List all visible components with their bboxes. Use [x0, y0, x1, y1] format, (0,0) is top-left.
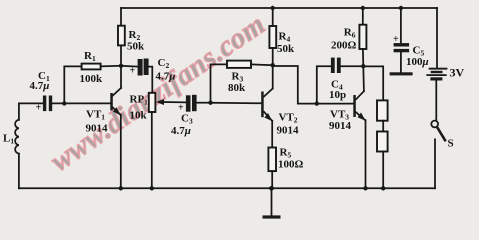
- svg-text:10p: 10p: [329, 89, 346, 101]
- svg-text:+: +: [36, 103, 42, 114]
- right side wire from rail to battery: [436, 8, 438, 68]
- svg-text:10k: 10k: [130, 110, 148, 122]
- svg-text:L1: L1: [3, 133, 14, 146]
- svg-text:R4: R4: [279, 31, 291, 44]
- wire R1 right to node A: [101, 65, 121, 68]
- svg-text:4.7μ: 4.7μ: [30, 80, 50, 92]
- junction dot C4 node: [361, 64, 365, 68]
- svg-text:R1: R1: [84, 50, 96, 63]
- wire R4 down to collector node: [272, 48, 274, 89]
- wire C5 to chassis bar: [400, 52, 402, 72]
- wire R6 down to VT3 collector: [363, 49, 364, 91]
- resistor R3: [227, 61, 251, 68]
- ground rail wire: [19, 187, 435, 189]
- junction dot VT3 emitter at rail: [363, 186, 367, 190]
- junction dot earphone at rail: [381, 186, 385, 190]
- wire junction up to C4 left: [317, 66, 331, 103]
- wire VT1 emitter down to ground rail: [120, 115, 122, 189]
- capacitor C2: [130, 57, 176, 83]
- wire base node up to R1: [64, 66, 81, 103]
- wire node A to C2: [121, 65, 138, 68]
- transistor VT3: [329, 91, 366, 132]
- wire C2 right down to RP1: [149, 67, 153, 93]
- chassis bar under C5: [390, 72, 413, 75]
- wire C4 right to R6 column: [341, 65, 364, 67]
- junction dot collector node VT2: [271, 63, 275, 67]
- wire battery to switch: [435, 81, 437, 121]
- svg-text:100Ω: 100Ω: [278, 159, 304, 171]
- earphone coil lower: [377, 132, 388, 152]
- wire rail down to R6: [362, 8, 364, 25]
- svg-text:+: +: [393, 34, 399, 45]
- wire R5 bottom to rail: [271, 171, 273, 188]
- svg-text:S: S: [448, 138, 454, 150]
- wire RP1 wiper to C3: [163, 101, 186, 103]
- svg-text:100μ: 100μ: [406, 56, 429, 68]
- junction dot VT1 emitter at rail: [119, 186, 123, 190]
- svg-text:80k: 80k: [228, 82, 246, 94]
- svg-text:50k: 50k: [127, 41, 145, 53]
- wire R3 right to VT2 collector node: [251, 63, 273, 66]
- earphone coil upper: [377, 100, 388, 120]
- junction dot on rail C5: [399, 6, 403, 10]
- svg-text:C3: C3: [181, 113, 193, 126]
- svg-text:100k: 100k: [80, 73, 104, 85]
- svg-text:3V: 3V: [450, 66, 465, 80]
- svg-text:9014: 9014: [329, 120, 352, 132]
- capacitor C3: [171, 95, 197, 137]
- wire VT2 emitter to R5: [271, 121, 273, 148]
- wire rail corner down to R2: [120, 8, 122, 26]
- wire C3 to junction: [197, 102, 211, 104]
- junction dot VT3 base node: [315, 101, 319, 105]
- svg-text:VT1: VT1: [86, 109, 105, 122]
- wire R2 bottom to node A: [120, 45, 122, 65]
- top supply rail wire: [121, 7, 437, 9]
- svg-text:9014: 9014: [277, 125, 300, 137]
- junction dot base node: [62, 101, 66, 105]
- wire VT2 collector node right branch: [273, 66, 317, 104]
- node A junction dot: [119, 64, 123, 68]
- wire switch to ground rail: [434, 139, 436, 188]
- svg-text:VT2: VT2: [279, 112, 298, 125]
- wire C1 to VT1 base: [52, 102, 110, 104]
- wire rail down to R4: [272, 8, 274, 26]
- watermark: [45, 8, 271, 177]
- wire junction up to R3: [211, 64, 228, 102]
- svg-text:R6: R6: [344, 27, 356, 40]
- svg-text:4.7μ: 4.7μ: [156, 71, 176, 83]
- resistor R1: [82, 64, 101, 70]
- wire between earphone coils: [382, 121, 384, 132]
- switch S: [431, 121, 453, 150]
- wire junction to VT3 base: [317, 103, 354, 105]
- transistor VT2: [261, 89, 299, 137]
- resistor R5: [268, 148, 276, 172]
- potentiometer RP1: [130, 93, 165, 122]
- ground: [263, 188, 281, 218]
- resistor R6: [359, 25, 366, 49]
- wire RP1 bottom to ground rail: [151, 112, 153, 188]
- svg-text:4.7μ: 4.7μ: [171, 125, 191, 137]
- battery 3V: [426, 66, 464, 81]
- wire node A down to VT1 collector: [120, 66, 122, 88]
- transistor VT1: [86, 88, 122, 135]
- wire VT3 emitter to rail: [365, 120, 367, 188]
- svg-text:+: +: [130, 66, 136, 77]
- svg-text:C2: C2: [158, 57, 170, 70]
- junction dot RP1 at rail: [150, 186, 154, 190]
- capacitor C4: [329, 58, 346, 101]
- resistor R2: [118, 26, 125, 46]
- capacitor C1: [30, 70, 53, 114]
- svg-text:50k: 50k: [277, 43, 295, 55]
- junction dot on rail R4: [271, 6, 275, 10]
- wire L1 top to C1: [19, 102, 43, 104]
- junction dot R5 at rail: [269, 186, 274, 191]
- junction dot on rail R6: [361, 6, 365, 10]
- wire junction to VT2 base: [211, 102, 262, 105]
- wire earphone to rail: [382, 152, 384, 189]
- wire C4 node right branch to earphone: [363, 66, 383, 100]
- inductor L1: [3, 103, 19, 188]
- svg-text:9014: 9014: [86, 123, 109, 135]
- wire rail down to C5: [400, 8, 402, 43]
- resistor R4: [269, 26, 276, 48]
- capacitor C5: [393, 34, 429, 68]
- junction dot C3/R3 node: [208, 101, 212, 105]
- svg-text:200Ω: 200Ω: [331, 40, 357, 52]
